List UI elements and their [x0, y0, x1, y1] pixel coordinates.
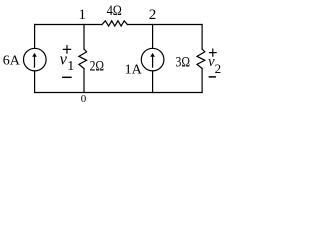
wire top-left segment	[35, 24, 102, 26]
wire top-right segment	[127, 24, 202, 26]
wire node1 branch lower	[83, 69, 85, 93]
minus sign v1	[63, 76, 71, 78]
wire left edge lower	[34, 71, 36, 93]
svg-text:1: 1	[67, 59, 74, 74]
wire node2 branch lower	[152, 71, 154, 93]
wire right edge upper	[201, 25, 203, 50]
resistor 3ohm zigzag	[197, 49, 205, 69]
wire left edge upper	[34, 25, 36, 49]
plus sign v2	[210, 49, 217, 56]
wire node1 branch upper	[83, 25, 85, 50]
current source 6A arrowhead	[32, 53, 37, 57]
wire node2 branch upper	[152, 25, 154, 49]
current source 1A arrow	[152, 56, 154, 67]
wire right edge lower	[201, 69, 203, 93]
svg-text:2: 2	[215, 61, 222, 76]
svg-text:0: 0	[81, 93, 87, 103]
minus sign v2	[209, 76, 215, 78]
plus sign v1	[63, 46, 70, 53]
svg-text:2Ω: 2Ω	[90, 59, 105, 75]
current source 6A arrow	[34, 56, 36, 67]
svg-text:2: 2	[149, 7, 157, 23]
svg-text:1A: 1A	[125, 62, 143, 77]
svg-text:4Ω: 4Ω	[107, 3, 122, 19]
current source 1A circle	[141, 48, 164, 71]
resistor 4ohm zigzag	[102, 21, 127, 26]
current source 6A circle	[24, 48, 47, 71]
current source 1A arrowhead	[150, 53, 155, 57]
svg-text:3Ω: 3Ω	[176, 55, 191, 71]
svg-text:1: 1	[79, 7, 87, 23]
svg-text:6A: 6A	[3, 54, 21, 69]
resistor 2ohm zigzag	[79, 49, 87, 69]
wire bottom	[35, 92, 203, 94]
